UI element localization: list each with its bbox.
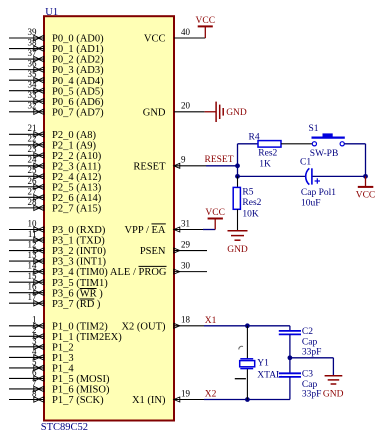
- svg-text:Cap: Cap: [302, 338, 318, 348]
- capacitor C1 Cap Pol1 10uF: [300, 157, 336, 208]
- svg-text:P1_2: P1_2: [52, 342, 74, 353]
- svg-text:28: 28: [28, 197, 38, 207]
- svg-text:GND: GND: [226, 108, 247, 118]
- resistor R5 Res2 10K: [233, 176, 261, 219]
- part name STC89C52: [41, 422, 88, 433]
- wire top reset branch left: [238, 143, 259, 145]
- svg-text:C3: C3: [302, 369, 313, 379]
- svg-text:P1_0 (TIM2): P1_0 (TIM2): [52, 321, 108, 332]
- pin 40: [174, 27, 205, 38]
- svg-text:GND: GND: [227, 245, 248, 255]
- pin 27 P2_6 (A14): [9, 186, 44, 200]
- svg-text:10: 10: [28, 218, 38, 228]
- svg-text:24: 24: [28, 155, 38, 165]
- svg-text:25: 25: [28, 165, 38, 175]
- wire RESET pin to junction: [206, 165, 238, 167]
- pin 19: [174, 388, 204, 402]
- pin name P2_2 (A10): [52, 151, 102, 162]
- svg-text:P3_3 (INT1): P3_3 (INT1): [52, 257, 106, 268]
- pin 14 P3_4 (TIM0): [9, 261, 44, 275]
- pin name P0_0 (AD0): [52, 34, 104, 45]
- node junction C1/VCC: [363, 174, 368, 179]
- svg-text:1K: 1K: [259, 159, 271, 169]
- pin 25 P2_4 (A12): [9, 165, 44, 179]
- node junction RESET/R4: [235, 163, 240, 168]
- pin 11 P3_1 (TXD): [9, 229, 44, 243]
- wire EA pin to VCC: [203, 229, 215, 231]
- crystal Y1 XTAL: [235, 326, 282, 400]
- svg-text:18: 18: [181, 315, 191, 325]
- svg-text:P3_0 (RXD): P3_0 (RXD): [52, 225, 106, 236]
- pin name P0_1 (AD1): [52, 44, 104, 55]
- svg-text:P2_6 (A14): P2_6 (A14): [52, 193, 102, 204]
- svg-text:P3_2 (INT0): P3_2 (INT0): [52, 246, 106, 257]
- svg-text:16: 16: [28, 282, 38, 292]
- node junction X1/Y1: [245, 323, 250, 328]
- svg-text:U1: U1: [45, 7, 58, 18]
- svg-text:RESET: RESET: [133, 161, 166, 172]
- svg-text:10K: 10K: [242, 209, 259, 219]
- svg-text:7: 7: [32, 378, 37, 388]
- pin name P3_3 (INT1): [52, 257, 106, 268]
- pin name P1_2: [52, 342, 74, 353]
- svg-text:P0_5 (AD5): P0_5 (AD5): [52, 86, 104, 97]
- switch S1 SW-PB: [309, 124, 345, 159]
- svg-text:XTAL: XTAL: [257, 370, 282, 380]
- pin 33 P0_6 (AD6): [9, 90, 44, 104]
- svg-text:P1_6 (MISO): P1_6 (MISO): [52, 385, 110, 396]
- svg-text:P1_3: P1_3: [52, 353, 74, 364]
- node junction RESET/C1/R5: [235, 174, 240, 179]
- svg-text:P1_1 (TIM2EX): P1_1 (TIM2EX): [52, 332, 122, 343]
- svg-text:GND: GND: [323, 389, 344, 399]
- pin 9: [174, 155, 206, 169]
- svg-text:P0_0 (AD0): P0_0 (AD0): [52, 34, 104, 45]
- svg-text:P3_1 (TXD): P3_1 (TXD): [52, 236, 105, 247]
- svg-text:P0_2 (AD2): P0_2 (AD2): [52, 55, 104, 66]
- pin 3 P1_2: [9, 336, 44, 350]
- svg-text:26: 26: [28, 176, 38, 186]
- pin name X1 (IN): [132, 395, 166, 406]
- svg-text:29: 29: [181, 239, 191, 249]
- wire bottom reset branch: [238, 175, 366, 177]
- svg-text:15: 15: [28, 271, 38, 281]
- svg-text:39: 39: [28, 27, 38, 37]
- svg-text:P2_7 (A15): P2_7 (A15): [52, 203, 102, 214]
- pin 22 P2_1 (A9): [9, 134, 44, 148]
- wire X2 net (pin 19): [204, 399, 290, 401]
- svg-text:8: 8: [32, 388, 37, 398]
- svg-text:C1: C1: [300, 157, 311, 167]
- pin name P0_6 (AD6): [52, 97, 104, 108]
- svg-text:P2_0 (A8): P2_0 (A8): [52, 130, 97, 141]
- pin name P3_0 (RXD): [52, 225, 106, 236]
- wire X1 net (pin 18): [204, 325, 290, 327]
- svg-text:P1_5 (MOSI): P1_5 (MOSI): [52, 374, 110, 385]
- svg-text:VCC: VCC: [356, 191, 376, 201]
- svg-text:VCC: VCC: [196, 16, 216, 26]
- pin 38 P0_1 (AD1): [9, 37, 44, 51]
- svg-text:C2: C2: [302, 327, 313, 337]
- svg-text:P2_5 (A13): P2_5 (A13): [52, 182, 102, 193]
- pin 16 P3_6 (WR): [9, 282, 44, 296]
- pin name P2_5 (A13): [52, 182, 102, 193]
- pin name P0_3 (AD3): [52, 65, 104, 76]
- svg-text:23: 23: [28, 144, 38, 154]
- pin name P2_0 (A8): [52, 130, 97, 141]
- pin 34 P0_5 (AD5): [9, 80, 44, 94]
- svg-text:Y1: Y1: [257, 358, 269, 368]
- pin 30: [174, 261, 207, 275]
- svg-text:STC89C52: STC89C52: [41, 422, 88, 433]
- pin name P2_3 (A11): [52, 161, 101, 172]
- svg-text:VPP / EA: VPP / EA: [124, 225, 165, 236]
- svg-text:14: 14: [28, 261, 38, 271]
- svg-text:SW-PB: SW-PB: [310, 149, 339, 159]
- svg-text:34: 34: [28, 80, 38, 90]
- wire C3 to X2 net: [289, 377, 291, 400]
- svg-text:Res2: Res2: [242, 198, 261, 208]
- pin 8 P1_7 (SCK): [9, 388, 44, 402]
- net label X1: [205, 316, 217, 326]
- pin name P3_2 (INT0): [52, 246, 106, 257]
- pin name P2_6 (A14): [52, 193, 102, 204]
- resistor R4 Res2 1K: [249, 132, 282, 169]
- svg-text:P2_2 (A10): P2_2 (A10): [52, 151, 102, 162]
- svg-text:VCC: VCC: [205, 208, 225, 218]
- capacitor C2 Cap 33pF: [279, 327, 322, 358]
- node junction X2/Y1: [245, 397, 250, 402]
- svg-text:21: 21: [28, 123, 37, 133]
- pin 35 P0_4 (AD4): [9, 69, 44, 83]
- capacitor C3 Cap 33pF: [279, 369, 322, 399]
- svg-text:17: 17: [28, 292, 38, 302]
- pin name P2_4 (A12): [52, 172, 102, 183]
- designator U1: [45, 7, 58, 18]
- svg-text:20: 20: [181, 101, 191, 111]
- ground GND (below R5): [227, 209, 248, 255]
- svg-text:VCC: VCC: [144, 34, 166, 45]
- pin name P0_7 (AD7): [52, 107, 104, 118]
- net label X2: [205, 389, 217, 399]
- pin name P1_4: [52, 364, 74, 375]
- pin 23 P2_2 (A10): [9, 144, 44, 158]
- svg-text:P3_7 (RD ): P3_7 (RD ): [52, 299, 101, 310]
- svg-text:P0_4 (AD4): P0_4 (AD4): [52, 76, 104, 87]
- svg-text:GND: GND: [143, 107, 166, 118]
- pin 36 P0_3 (AD3): [9, 59, 44, 73]
- wire R4 to S1: [281, 143, 312, 145]
- net label RESET: [205, 155, 234, 165]
- pin name RESET: [133, 161, 166, 172]
- IC U1 STC89C52 body: [44, 16, 174, 420]
- pin 10 P3_0 (RXD): [9, 218, 44, 232]
- svg-text:P1_4: P1_4: [52, 364, 74, 375]
- svg-text:P1_7 (SCK): P1_7 (SCK): [52, 395, 104, 406]
- svg-text:35: 35: [28, 69, 38, 79]
- pin 28 P2_7 (A15): [9, 197, 44, 211]
- pin 13 P3_3 (INT1): [9, 250, 44, 264]
- pin 31: [174, 218, 203, 232]
- power VCC (pin 40): [196, 16, 216, 38]
- pin 32 P0_7 (AD7): [9, 101, 44, 115]
- svg-text:32: 32: [28, 101, 37, 111]
- pin name P0_5 (AD5): [52, 86, 104, 97]
- pin name PSEN: [140, 246, 166, 257]
- wire top to C2: [289, 326, 291, 331]
- svg-text:R4: R4: [249, 132, 260, 142]
- svg-text:4: 4: [32, 346, 37, 356]
- ground GND (pin 20, sideways): [205, 102, 247, 122]
- pin 5 P1_4: [9, 357, 44, 371]
- svg-text:P0_7 (AD7): P0_7 (AD7): [52, 107, 104, 118]
- pin name P3_6 (WR): [52, 288, 103, 299]
- pin name P0_4 (AD4): [52, 76, 104, 87]
- pin name P3_5 (TIM1): [52, 278, 108, 289]
- svg-text:R5: R5: [242, 188, 253, 198]
- svg-text:P0_3 (AD3): P0_3 (AD3): [52, 65, 104, 76]
- svg-text:1: 1: [32, 315, 37, 325]
- svg-text:33pF: 33pF: [302, 347, 322, 357]
- pin 15 P3_5 (TIM1): [9, 271, 44, 285]
- svg-text:P0_6 (AD6): P0_6 (AD6): [52, 97, 104, 108]
- pin 12 P3_2 (INT0): [9, 239, 44, 253]
- svg-text:27: 27: [28, 186, 38, 196]
- pin name P2_1 (A9): [52, 140, 97, 151]
- pin name P3_7 (RD): [52, 299, 101, 310]
- wire S1 to corner: [344, 144, 365, 177]
- svg-text:33: 33: [28, 90, 38, 100]
- pin 6 P1_5 (MOSI): [9, 367, 44, 381]
- svg-text:X1: X1: [205, 316, 217, 326]
- svg-text:Res2: Res2: [258, 149, 277, 159]
- pin name P1_1 (TIM2EX): [52, 332, 122, 343]
- pin name P1_3: [52, 353, 74, 364]
- svg-text:6: 6: [32, 367, 37, 377]
- pin 24 P2_3 (A11): [9, 155, 44, 169]
- pin 21 P2_0 (A8): [9, 123, 44, 137]
- svg-text:19: 19: [181, 388, 191, 398]
- pin name P1_7 (SCK): [52, 395, 104, 406]
- wire vertical reset net: [237, 144, 239, 177]
- pin 4 P1_3: [9, 346, 44, 360]
- svg-text:10uF: 10uF: [301, 198, 321, 208]
- wire C2 to C3: [289, 334, 291, 373]
- power VCC (EA pin 31): [205, 208, 225, 229]
- pin name GND: [143, 107, 166, 118]
- pin 17 P3_7 (RD): [9, 292, 44, 306]
- svg-text:P0_1 (AD1): P0_1 (AD1): [52, 44, 104, 55]
- power VCC (reset branch, downward): [356, 176, 376, 200]
- pin name P1_5 (MOSI): [52, 374, 110, 385]
- pin name VPP / EA (EA overlined): [124, 224, 165, 236]
- svg-text:22: 22: [28, 134, 37, 144]
- svg-text:X2 (OUT): X2 (OUT): [121, 321, 166, 332]
- svg-text:30: 30: [181, 261, 191, 271]
- svg-text:3: 3: [32, 336, 37, 346]
- svg-text:X2: X2: [205, 389, 217, 399]
- pin 29: [174, 239, 207, 253]
- svg-text:13: 13: [28, 250, 38, 260]
- svg-text:5: 5: [32, 357, 37, 367]
- svg-text:P3_4 (TIM0): P3_4 (TIM0): [52, 267, 108, 278]
- svg-text:ALE / PROG: ALE / PROG: [110, 267, 167, 278]
- svg-text:Cap: Cap: [302, 380, 318, 390]
- ground GND (crystal caps): [323, 376, 344, 400]
- svg-text:36: 36: [28, 59, 38, 69]
- svg-text:P3_6 (WR ): P3_6 (WR ): [52, 288, 103, 299]
- svg-text:RESET: RESET: [205, 155, 234, 165]
- svg-text:40: 40: [181, 27, 191, 37]
- pin name P3_4 (TIM0): [52, 267, 108, 278]
- pin 26 P2_5 (A13): [9, 176, 44, 190]
- svg-text:37: 37: [28, 48, 38, 58]
- svg-text:PSEN: PSEN: [140, 246, 166, 257]
- wire junction to GND: [290, 358, 334, 376]
- pin name ALE / PROG (PROG overlined): [110, 266, 167, 278]
- svg-text:P2_4 (A12): P2_4 (A12): [52, 172, 102, 183]
- pin name X2 (OUT): [121, 321, 166, 332]
- pin name P0_2 (AD2): [52, 55, 104, 66]
- pin 18: [174, 315, 204, 329]
- svg-text:33pF: 33pF: [302, 389, 322, 399]
- svg-text:2: 2: [32, 325, 37, 335]
- pin name P3_1 (TXD): [52, 236, 105, 247]
- pin 20: [174, 101, 205, 112]
- svg-text:9: 9: [181, 155, 186, 165]
- svg-text:P3_5 (TIM1): P3_5 (TIM1): [52, 278, 108, 289]
- svg-text:S1: S1: [309, 124, 319, 134]
- pin name P1_6 (MISO): [52, 385, 110, 396]
- pin name VCC: [144, 34, 166, 45]
- svg-text:31: 31: [181, 218, 190, 228]
- svg-text:12: 12: [28, 239, 37, 249]
- pin 1 P1_0 (TIM2): [9, 315, 44, 329]
- pin 7 P1_6 (MISO): [9, 378, 44, 392]
- svg-text:X1 (IN): X1 (IN): [132, 395, 166, 406]
- pin name P2_7 (A15): [52, 203, 102, 214]
- pin 2 P1_1 (TIM2EX): [9, 325, 44, 339]
- svg-text:38: 38: [28, 37, 38, 47]
- node junction C2/C3/GND: [288, 355, 293, 360]
- pin 39 P0_0 (AD0): [9, 27, 44, 41]
- svg-text:P2_1 (A9): P2_1 (A9): [52, 140, 97, 151]
- pin name P1_0 (TIM2): [52, 321, 108, 332]
- svg-text:11: 11: [28, 229, 37, 239]
- svg-text:P2_3 (A11): P2_3 (A11): [52, 161, 101, 172]
- svg-text:Cap Pol1: Cap Pol1: [301, 188, 336, 198]
- pin 37 P0_2 (AD2): [9, 48, 44, 62]
